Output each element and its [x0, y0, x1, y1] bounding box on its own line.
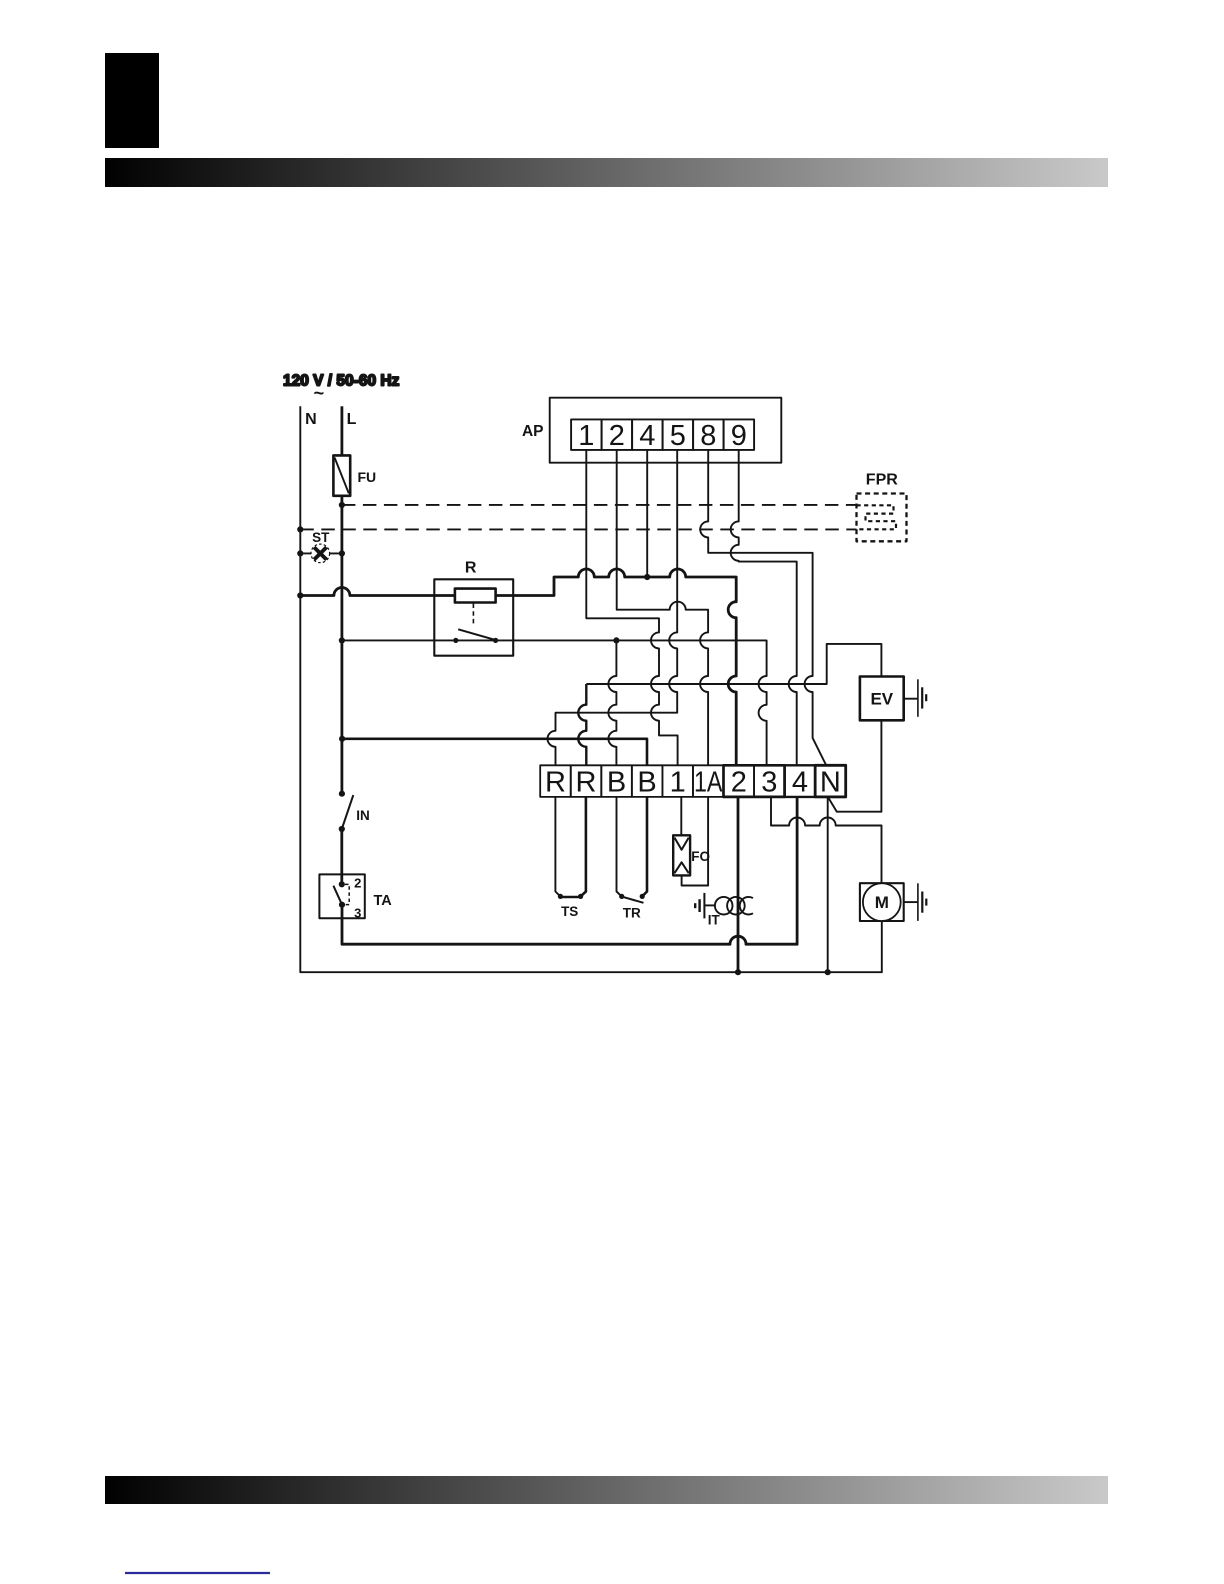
photoresistor FPR dotted box: [857, 494, 907, 542]
wire B1 down to TR: [617, 797, 622, 897]
svg-text:R: R: [545, 766, 566, 798]
svg-text:1A: 1A: [694, 766, 723, 798]
svg-text:3: 3: [354, 905, 361, 920]
svg-text:N: N: [820, 766, 841, 798]
svg-text:M: M: [875, 893, 889, 912]
thermostat TR open contact: [619, 894, 645, 903]
wire terminal 3 to motor M: [771, 797, 882, 883]
header black box: [105, 53, 159, 148]
thick R feed line: N to R box to AP4 node, down to terminal 2: [300, 569, 736, 765]
wire AP9 to terminal 4: [731, 450, 797, 765]
gas valve EV: [860, 677, 904, 721]
svg-text:B: B: [637, 766, 656, 798]
junction dot L/switch line: [339, 637, 345, 643]
svg-text:9: 9: [731, 420, 747, 452]
junction dot N riser/bottom bus: [825, 969, 831, 975]
thermostat TS closed contact: [558, 894, 583, 899]
motor M: [860, 883, 904, 921]
thick line L to terminal B2: [342, 739, 647, 766]
junction dot switch line/B1 branch: [613, 637, 619, 643]
svg-text:B: B: [607, 766, 626, 798]
wire AP8 to terminal N (diagonal): [700, 450, 826, 765]
svg-text:5: 5: [670, 420, 686, 452]
thermostat TA box: [319, 874, 364, 918]
wire L vertical upper: [340, 406, 343, 455]
svg-text:ST: ST: [312, 530, 330, 545]
junction dot L/B2 line: [339, 736, 345, 742]
svg-text:N: N: [305, 411, 317, 428]
footer blue link line: [125, 1572, 270, 1574]
wire R1 down to TS: [555, 797, 560, 897]
relay contact in R: [453, 629, 498, 643]
svg-text:1: 1: [578, 420, 594, 452]
svg-text:R: R: [465, 560, 477, 577]
svg-text:4: 4: [792, 766, 808, 798]
dashed control line 1 to FPR: [342, 504, 857, 506]
svg-text:2: 2: [354, 876, 361, 891]
wire L vertical mid: [340, 496, 343, 884]
svg-text:EV: EV: [870, 689, 893, 708]
box AP: [550, 398, 782, 463]
terminal strip R R B B 1 1A 2 3 4 N: [540, 765, 846, 797]
AP pin labels: [578, 420, 747, 452]
IT earth symbol: [695, 893, 715, 919]
wire AP5 + line B + terminal R1 riser: [548, 450, 678, 765]
svg-text:8: 8: [700, 420, 716, 452]
svg-text:R: R: [576, 766, 597, 798]
igniter transformer IT: [715, 897, 753, 915]
junction dot AP4/R-line: [644, 574, 650, 580]
wire AP1 to terminal 1: [586, 450, 677, 765]
svg-text:~: ~: [314, 383, 325, 403]
wire terminal 1 to FO: [680, 797, 682, 836]
svg-text:TS: TS: [561, 904, 578, 919]
junction dot N/dashed2: [297, 526, 303, 532]
thermal fuse FO: [673, 835, 690, 875]
svg-text:TA: TA: [374, 893, 393, 909]
junction dot N/R-line: [297, 592, 303, 598]
lamp ST: [297, 544, 345, 563]
svg-text:TR: TR: [623, 905, 641, 920]
branch to terminal B1: [608, 640, 616, 765]
box R: [434, 579, 513, 655]
svg-text:4: 4: [639, 420, 655, 452]
svg-text:L: L: [347, 411, 357, 428]
switch line L to terminal 3 riser: [342, 640, 767, 765]
dashed control line 2 to FPR: [300, 528, 856, 530]
wire AP4 stub: [646, 450, 648, 577]
wire terminal 4 riser + TA bus: [342, 797, 797, 944]
switch IN: [339, 791, 354, 833]
M earth symbol: [904, 883, 927, 921]
FPR serpentine element: [857, 505, 897, 529]
wire FO to terminal 1A: [682, 797, 709, 886]
wire EV bottom to terminal N: [828, 720, 881, 811]
svg-text:FPR: FPR: [866, 472, 898, 489]
wire R2 down to TS: [581, 797, 586, 897]
header gradient bar: [105, 158, 1108, 187]
junction dot L/dashed1: [339, 502, 345, 508]
wire B2 down to TR: [642, 797, 647, 897]
svg-text:AP: AP: [522, 423, 544, 440]
svg-text:IT: IT: [708, 912, 721, 927]
svg-text:2: 2: [609, 420, 625, 452]
svg-text:1: 1: [670, 766, 686, 798]
footer gradient bar: [105, 1476, 1108, 1504]
resistor element in R: [455, 589, 496, 603]
EV earth symbol: [904, 679, 927, 717]
svg-text:IN: IN: [356, 808, 370, 823]
dash-dot link in R: [472, 604, 474, 627]
fuse FU: [333, 455, 350, 495]
terminal R2 riser from line A: [578, 684, 586, 765]
line A bus to EV top: [586, 644, 881, 684]
AP terminal cells 1 2 4 5 8 9: [571, 419, 754, 450]
wire AP2 to terminal 1A: [617, 450, 708, 765]
svg-text:2: 2: [731, 766, 747, 798]
svg-text:FU: FU: [358, 469, 377, 485]
terminal strip labels: [545, 766, 841, 798]
wire N vertical + bottom bus + motor return: [300, 406, 882, 972]
wire terminal N to bottom bus: [827, 797, 829, 972]
svg-text:3: 3: [761, 766, 777, 798]
junction dot igniter/bottom bus: [735, 969, 741, 975]
wire terminal 2 through igniter to bottom bus: [737, 797, 740, 972]
svg-text:120 V / 50-60 Hz: 120 V / 50-60 Hz: [283, 373, 400, 390]
